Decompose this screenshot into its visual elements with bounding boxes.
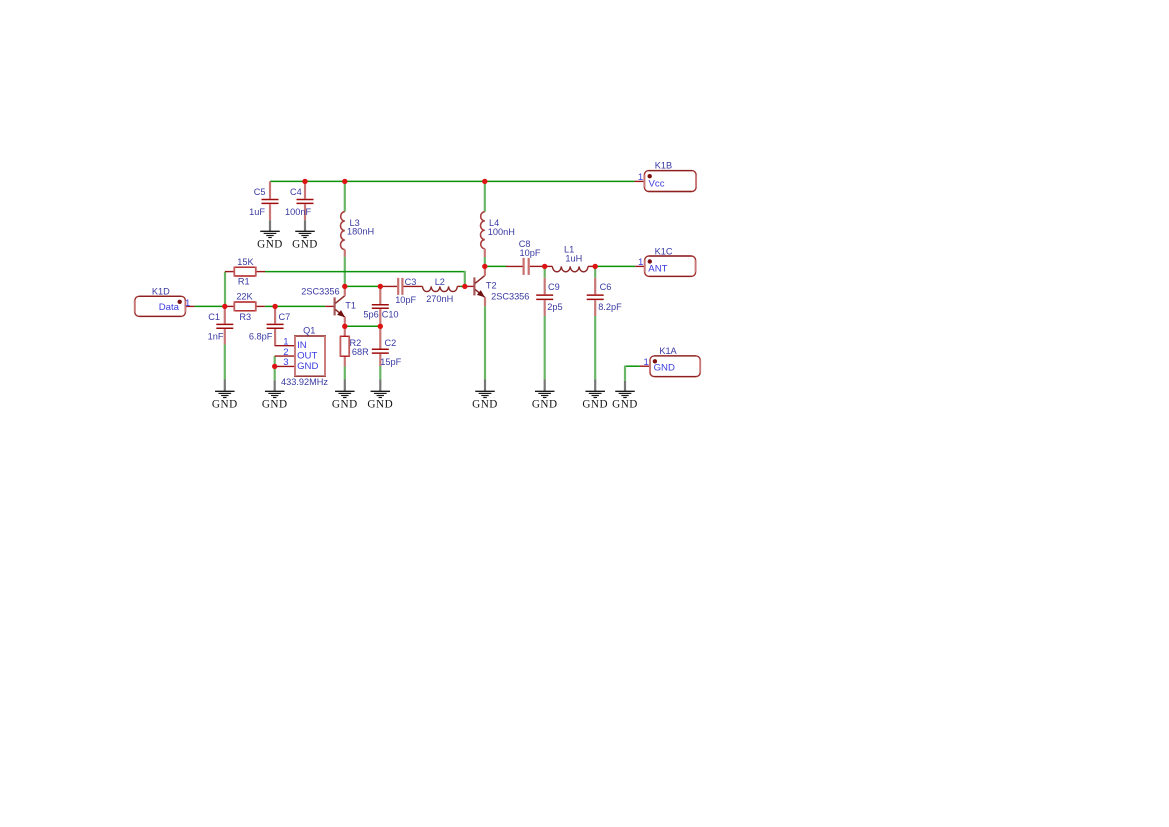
pin number 3 of Q1 [283, 357, 288, 368]
ground below C2 [367, 380, 393, 411]
label L2 [435, 277, 445, 287]
svg-text:GND: GND [532, 398, 558, 410]
svg-text:GND: GND [257, 238, 283, 250]
junction T1 emitter [342, 324, 347, 329]
pin number 1 of K1B [638, 172, 643, 183]
svg-text:R1: R1 [238, 277, 250, 287]
pin number 1 of K1D [185, 298, 190, 309]
wire K1A to ground [624, 366, 626, 381]
connector K1B [635, 171, 697, 192]
connector K1C [635, 256, 695, 276]
label C10 [382, 310, 399, 320]
svg-text:GND: GND [472, 398, 498, 410]
svg-text:1uH: 1uH [565, 254, 582, 264]
svg-text:100nF: 100nF [285, 207, 311, 217]
pin number 1 of K1C [638, 257, 643, 268]
label 10pF of C8 [520, 248, 541, 258]
transistor T1 [325, 286, 345, 326]
inductor L2 [423, 286, 461, 291]
ground below R2 [332, 380, 358, 411]
svg-text:15K: 15K [237, 257, 254, 267]
ground below C1 [212, 380, 238, 411]
pin name OUT [297, 351, 317, 362]
svg-text:433.92MHz: 433.92MHz [281, 377, 328, 387]
label K1C [655, 246, 673, 256]
label C3 [405, 277, 417, 287]
svg-text:180nH: 180nH [347, 227, 374, 237]
svg-text:Vcc: Vcc [649, 179, 665, 190]
junction Vcc-C4 [302, 179, 307, 184]
svg-text:1: 1 [185, 298, 190, 309]
wire C6 to ground [594, 316, 596, 380]
junction C10 top [378, 284, 383, 289]
svg-text:GND: GND [262, 398, 288, 410]
label 10pF of C3 [395, 295, 416, 305]
wire L2 to T2 base node [460, 285, 465, 287]
ground below C5 [257, 220, 283, 250]
label C4 [290, 187, 302, 197]
capacitor C6 [587, 278, 604, 316]
wire R3 to C7 node [265, 305, 275, 307]
label Data [159, 302, 180, 313]
svg-text:GND: GND [297, 361, 318, 372]
svg-text:2SC3356: 2SC3356 [301, 287, 339, 297]
wire L3 bottom to T1 collector [344, 257, 346, 287]
svg-text:K1D: K1D [152, 286, 170, 296]
svg-text:3: 3 [283, 357, 288, 368]
pin name IN [297, 340, 307, 351]
capacitor C9 [536, 278, 553, 316]
svg-text:L2: L2 [435, 277, 445, 287]
svg-text:C2: C2 [385, 338, 397, 348]
wire T1 collector node [345, 285, 381, 287]
wire ANT node from L4 [485, 265, 507, 267]
pin number 1 of Q1 [283, 337, 288, 348]
svg-text:K1C: K1C [655, 246, 673, 256]
svg-text:Data: Data [159, 302, 180, 313]
label 180nH [347, 227, 374, 237]
ground below Q1 [262, 380, 288, 410]
svg-text:1: 1 [638, 257, 643, 268]
wire L4 bottom [484, 257, 486, 266]
svg-text:10pF: 10pF [520, 248, 541, 258]
wire Q1 pin3 to ground [274, 366, 276, 380]
junction T1 collector [342, 284, 347, 289]
label 22K [236, 292, 253, 302]
wire Vcc rail [270, 180, 635, 182]
svg-text:2SC3356: 2SC3356 [491, 292, 529, 302]
label C7 [279, 312, 291, 322]
capacitor C3 [380, 278, 422, 295]
resistor R3 [225, 301, 265, 311]
wire C6 top [594, 266, 596, 277]
svg-text:ANT: ANT [648, 264, 667, 275]
wire T1 emitter node [345, 325, 381, 327]
capacitor C5 [262, 181, 279, 220]
label 2SC3356 of T2 [491, 292, 529, 302]
svg-text:C4: C4 [290, 187, 302, 197]
label L1 [564, 244, 574, 254]
label 5p6 [363, 310, 378, 320]
label C6 [600, 282, 612, 292]
junction C6 top [593, 264, 598, 269]
label 1uF [249, 207, 265, 217]
wire C2 to ground [379, 366, 381, 380]
label Vcc [649, 179, 665, 190]
capacitor C10 [372, 286, 389, 326]
svg-text:C1: C1 [208, 312, 220, 322]
label L3 [350, 218, 360, 228]
svg-text:GND: GND [612, 398, 638, 410]
junction ANT-L4 [482, 264, 487, 269]
label 100nF [285, 207, 311, 217]
label T1 [345, 301, 356, 311]
crystal Q1 [275, 336, 326, 376]
svg-text:C3: C3 [405, 277, 417, 287]
svg-text:22K: 22K [236, 292, 253, 302]
svg-text:1nF: 1nF [208, 332, 224, 342]
transistor T2 [465, 266, 485, 306]
label R1 [238, 277, 250, 287]
pin number 2 of Q1 [283, 347, 288, 358]
ground below T2 [472, 380, 498, 411]
svg-text:68R: 68R [352, 347, 369, 357]
svg-text:Q1: Q1 [303, 325, 315, 335]
label R3 [239, 312, 251, 322]
svg-text:GND: GND [367, 398, 393, 410]
connector K1A [640, 356, 700, 377]
label C8 [519, 239, 531, 249]
ground below C6 [582, 380, 608, 411]
svg-text:K1B: K1B [655, 160, 672, 170]
label 68R [352, 347, 369, 357]
svg-text:C6: C6 [600, 282, 612, 292]
label K1B [655, 160, 672, 170]
ground below C4 [292, 220, 318, 250]
capacitor C7 [267, 306, 284, 345]
wire C9 top [544, 266, 546, 277]
svg-text:15pF: 15pF [380, 357, 401, 367]
wire C9 to ground [544, 316, 546, 380]
junction Q1 pin3 [272, 364, 277, 369]
svg-text:100nH: 100nH [488, 227, 515, 237]
junction C2 top [378, 324, 383, 329]
label T2 [486, 281, 497, 291]
svg-text:GND: GND [582, 398, 608, 410]
svg-text:C10: C10 [382, 310, 399, 320]
label 2p5 [547, 302, 562, 312]
svg-text:270nH: 270nH [426, 294, 453, 304]
junction Data-C1 [222, 304, 227, 309]
wire R1 to T2 base horizontal [265, 271, 465, 273]
label 433.92MHz [281, 377, 328, 387]
svg-text:C7: C7 [279, 312, 291, 322]
ground below K1A [612, 381, 638, 410]
label 2SC3356 of T1 [301, 287, 339, 297]
label GND of K1A [654, 363, 675, 374]
svg-text:C5: C5 [254, 187, 266, 197]
pin name GND of Q1 [297, 361, 318, 372]
svg-text:GND: GND [654, 363, 675, 374]
wire C7 node to T1 base [275, 305, 325, 307]
label 6.8pF [249, 332, 273, 342]
label 1uH [565, 254, 582, 264]
svg-text:6.8pF: 6.8pF [249, 332, 273, 342]
wire C1 to ground [224, 345, 226, 380]
wire Q1 pin2 down [274, 356, 276, 366]
label Q1 [303, 325, 315, 335]
junction R3-C7 [272, 304, 277, 309]
svg-text:R3: R3 [239, 312, 251, 322]
svg-text:1uF: 1uF [249, 207, 265, 217]
wire K1D to node [195, 305, 225, 307]
junction C9 top [542, 264, 547, 269]
wire T2 emitter to ground [484, 306, 486, 379]
svg-text:2p5: 2p5 [547, 302, 562, 312]
label C9 [548, 282, 560, 292]
label K1A [659, 346, 677, 356]
label ANT [648, 264, 667, 275]
label C1 [208, 312, 220, 322]
capacitor C4 [297, 181, 314, 220]
wire down to T2 base node [464, 271, 466, 287]
label 1nF [208, 332, 224, 342]
wire L1 to K1C [595, 265, 635, 267]
inductor L1 [545, 266, 596, 271]
svg-text:C9: C9 [548, 282, 560, 292]
svg-text:5p6: 5p6 [363, 310, 378, 320]
label 8.2pF [598, 302, 622, 312]
junction T2 base [462, 284, 467, 289]
capacitor C2 [372, 326, 389, 366]
ground below C9 [532, 380, 558, 411]
svg-text:T2: T2 [486, 281, 497, 291]
junction Vcc-L4 [482, 179, 487, 184]
wire K1A horizontal [625, 365, 640, 367]
svg-text:8.2pF: 8.2pF [598, 302, 622, 312]
capacitor C1 [216, 306, 233, 344]
svg-text:1: 1 [644, 357, 649, 368]
label C2 [385, 338, 397, 348]
wire R2 to ground [344, 367, 346, 380]
resistor R2 [340, 326, 350, 366]
wire R1 left vertical [224, 272, 226, 307]
label 15pF [380, 357, 401, 367]
wire L3 top [344, 181, 346, 212]
label C5 [254, 187, 266, 197]
label L4 [489, 218, 499, 228]
wire L4 top [484, 181, 486, 212]
resistor R1 [225, 267, 265, 277]
svg-text:GND: GND [332, 398, 358, 410]
svg-text:T1: T1 [345, 301, 356, 311]
connector K1D [135, 296, 195, 316]
label K1D [152, 286, 170, 296]
svg-text:1: 1 [638, 172, 643, 183]
svg-text:GND: GND [292, 238, 318, 250]
svg-text:10pF: 10pF [395, 295, 416, 305]
pin number 1 of K1A [644, 357, 649, 368]
label 15K [237, 257, 254, 267]
label R2 [350, 338, 362, 348]
label 270nH [426, 294, 453, 304]
svg-text:GND: GND [212, 398, 238, 410]
inductor L4 [481, 212, 485, 257]
svg-text:K1A: K1A [659, 346, 677, 356]
inductor L3 [341, 212, 345, 257]
junction Vcc-L3 [342, 179, 347, 184]
label 100nH [488, 227, 515, 237]
capacitor C8 [506, 258, 545, 275]
